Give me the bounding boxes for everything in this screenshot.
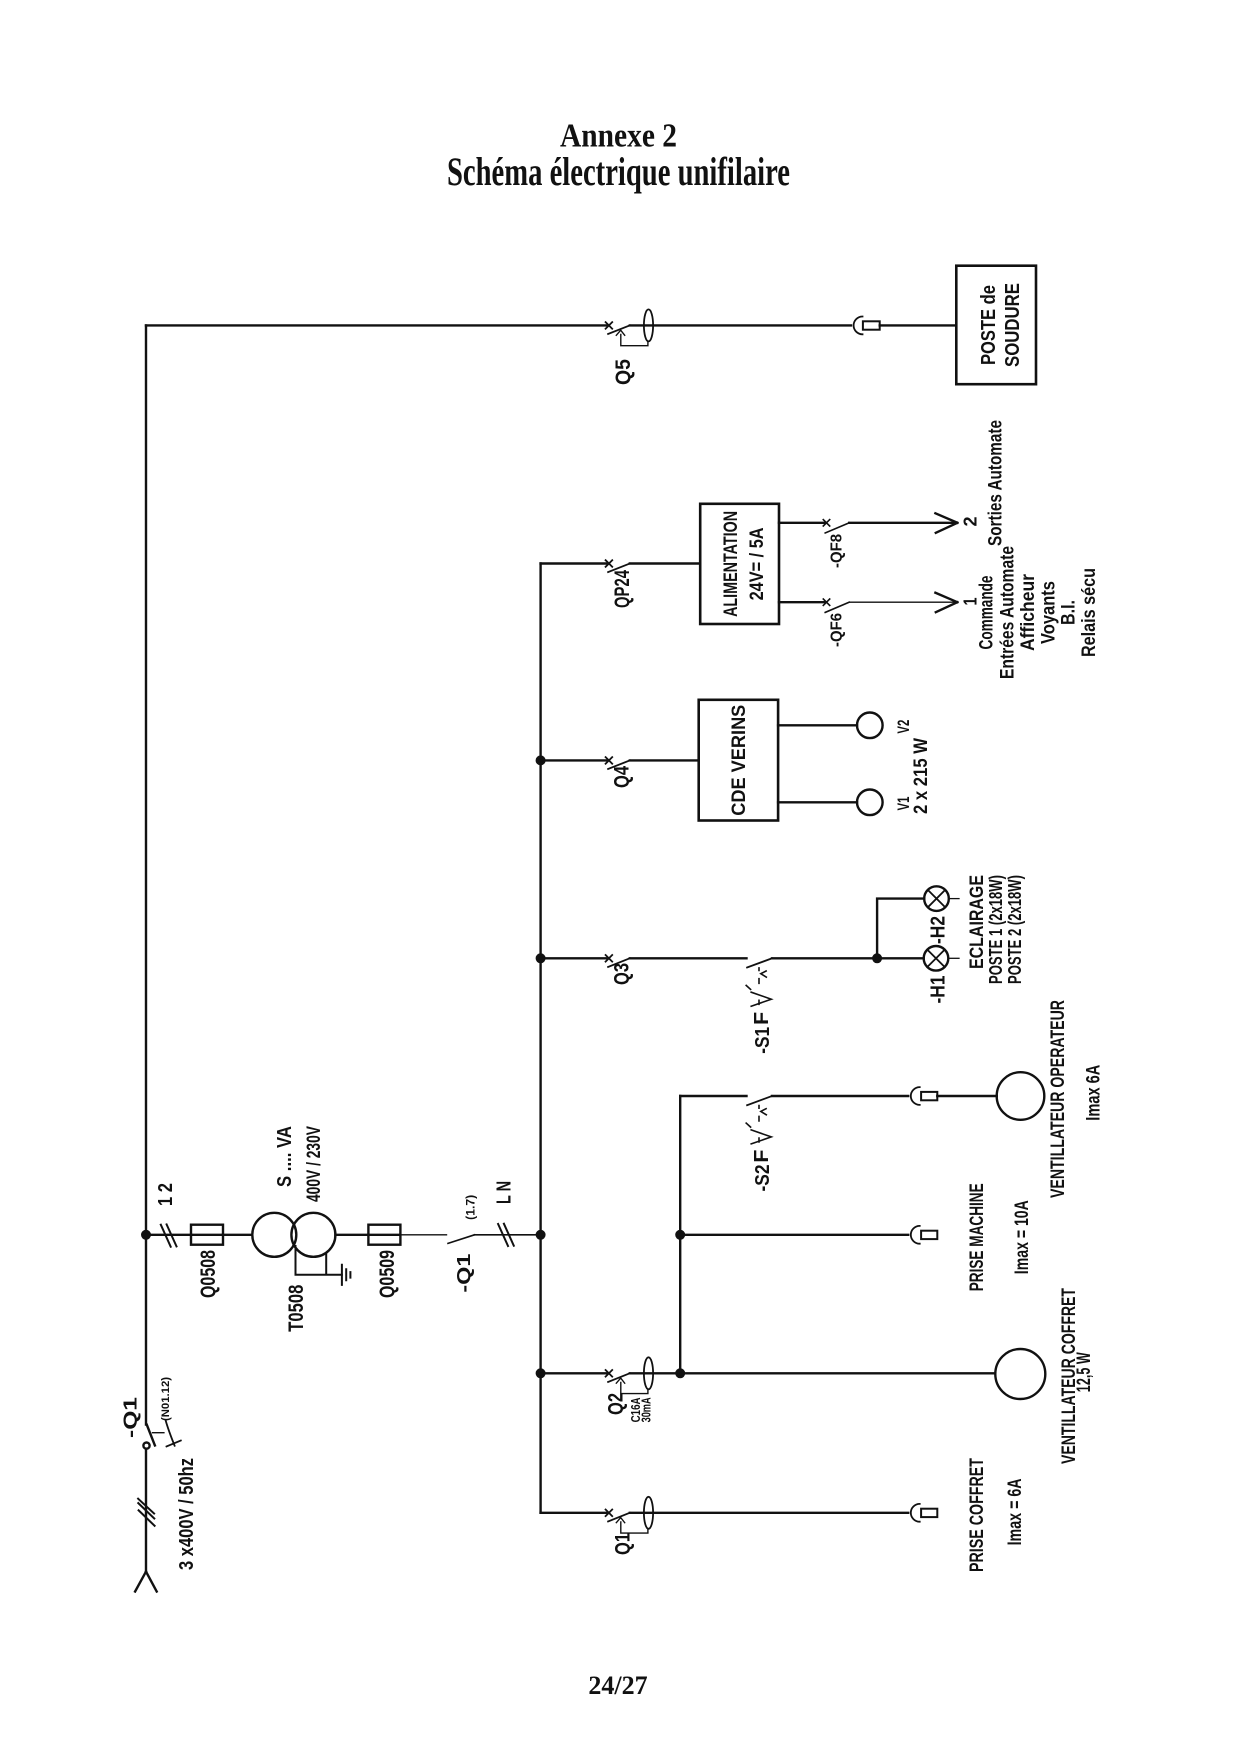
- breaker Q3 contact x: [606, 955, 613, 962]
- svg-text:-S1: -S1: [752, 1027, 774, 1054]
- switch -S1 actuator linkage: [746, 968, 771, 1006]
- label ALIMENTATION 24V= / 5A: [721, 511, 768, 617]
- svg-text:Schéma électrique unifilaire: Schéma électrique unifilaire: [447, 149, 790, 194]
- svg-text:Imax 6A: Imax 6A: [1084, 1064, 1105, 1120]
- svg-text:400V / 230V: 400V / 230V: [304, 1126, 325, 1202]
- svg-text:24/27: 24/27: [588, 1671, 647, 1700]
- svg-text:ECLAIRAGE: ECLAIRAGE: [967, 875, 988, 969]
- svg-text:Q1: Q1: [612, 1533, 635, 1555]
- wire QF8 to arrow: [849, 522, 955, 524]
- breaker Q5 ellipse: [644, 309, 653, 341]
- ground: [342, 1265, 351, 1285]
- svg-text:Imax = 10A: Imax = 10A: [1012, 1200, 1033, 1274]
- wire Q2 subfeed line: [679, 1096, 681, 1373]
- breaker Q2 contact x: [606, 1370, 613, 1377]
- wire V1 drop: [778, 801, 857, 803]
- svg-text:-Q1: -Q1: [454, 1254, 474, 1293]
- svg-text:Afficheur: Afficheur: [1018, 573, 1039, 651]
- breaker Q3 blade: [608, 958, 630, 967]
- breaker Q1 trip linkage: [616, 1518, 648, 1534]
- arrow output 1: [935, 593, 957, 613]
- svg-text:Q3: Q3: [611, 963, 634, 985]
- bus 230V: [539, 564, 541, 1513]
- breaker QP24 contact x: [606, 560, 613, 567]
- svg-text:T0508: T0508: [285, 1284, 308, 1331]
- box POSTE de SOUDURE: [956, 266, 1036, 385]
- motor fan operateur: [997, 1072, 1045, 1120]
- incoming supply arrow: [135, 1572, 157, 1592]
- svg-text:L N: L N: [494, 1181, 516, 1204]
- svg-text:PRISE MACHINE: PRISE MACHINE: [967, 1183, 988, 1291]
- svg-text:Sorties Automate: Sorties Automate: [986, 420, 1007, 546]
- svg-text:Commande: Commande: [977, 576, 998, 650]
- wire S2 to socket: [772, 1095, 908, 1097]
- breaker Q5 blade: [608, 325, 630, 334]
- wire socket to fan operateur: [937, 1095, 997, 1097]
- branch Q4 wire: [541, 759, 607, 761]
- wire H2 branch: [877, 899, 924, 959]
- svg-text:POSTE 2 (2x18W): POSTE 2 (2x18W): [1005, 875, 1025, 984]
- cylinder valve V1: [857, 790, 883, 816]
- wire fuse to switch: [400, 1234, 446, 1236]
- wire transformer drop: [146, 1234, 191, 1236]
- wire V2 drop: [778, 724, 857, 726]
- disconnect switch -Q1 main: [143, 1425, 164, 1449]
- breaker QP24 blade: [608, 564, 630, 573]
- breaker Q1 blade: [608, 1513, 630, 1522]
- svg-text:SOUDURE: SOUDURE: [1002, 283, 1024, 367]
- wire QF6 to arrow: [849, 601, 955, 603]
- svg-text:-S2: -S2: [752, 1165, 774, 1192]
- svg-text:V2: V2: [894, 720, 913, 734]
- junction dot machine tap: [676, 1231, 684, 1239]
- breaker Q4 blade: [608, 760, 630, 769]
- svg-text:-QF8: -QF8: [829, 534, 846, 568]
- wire feed main segment: [145, 325, 147, 1424]
- wire QF6 drop: [779, 601, 824, 603]
- wire S1 to junction: [772, 957, 877, 959]
- wire Q5 to socket: [630, 324, 851, 326]
- svg-text:Voyants: Voyants: [1039, 581, 1060, 644]
- svg-text:-Q1: -Q1: [121, 1397, 141, 1438]
- svg-text:-H2: -H2: [928, 916, 950, 944]
- svg-text:2 x 215 W: 2 x 215 W: [911, 738, 932, 814]
- wire to lamp H1: [877, 957, 924, 959]
- wire vent operateur drop: [680, 1095, 746, 1097]
- svg-text:1 2: 1 2: [155, 1183, 177, 1206]
- svg-text:Q5: Q5: [612, 359, 635, 385]
- svg-text:CDE VERINS: CDE VERINS: [729, 705, 750, 816]
- svg-text:Q4: Q4: [611, 766, 634, 788]
- svg-text:30mA: 30mA: [639, 1397, 654, 1422]
- lamp H2: [924, 886, 949, 911]
- wire feed left segment: [145, 1449, 147, 1572]
- wire switch to bus: [475, 1234, 541, 1236]
- fuse Q0509: [368, 1225, 400, 1245]
- branch Q3 wire: [541, 957, 607, 959]
- socket PRISE MACHINE: [911, 1226, 938, 1244]
- svg-text:Q0509: Q0509: [376, 1250, 399, 1298]
- label -S1 F: [751, 1012, 774, 1054]
- svg-text:24V= / 5A: 24V= / 5A: [747, 527, 768, 600]
- breaker -QF6 blade: [825, 602, 849, 612]
- svg-text:Imax = 6A: Imax = 6A: [1005, 1478, 1026, 1545]
- svg-text:F: F: [751, 1012, 773, 1025]
- breaker Q2 trip linkage: [616, 1378, 648, 1394]
- switch -S1 blade: [747, 958, 772, 967]
- svg-text:(1.7): (1.7): [464, 1195, 478, 1220]
- breaker -QF6 contact x: [823, 599, 829, 605]
- svg-text:S .... VA: S .... VA: [274, 1126, 296, 1187]
- socket welder: [854, 317, 880, 335]
- svg-text:VENTILLATEUR OPERATEUR: VENTILLATEUR OPERATEUR: [1048, 1000, 1069, 1198]
- breaker -QF8 blade: [825, 523, 849, 533]
- breaker Q1 contact x: [606, 1510, 613, 1517]
- svg-text:-QF6: -QF6: [829, 613, 846, 647]
- svg-text:-H1: -H1: [928, 976, 950, 1004]
- wire transformer to fuse Q0509: [335, 1234, 368, 1236]
- disconnect switch -Q1 secondary: [448, 1235, 475, 1244]
- wire stub H2: [949, 898, 959, 900]
- breaker Q2 blade: [608, 1373, 630, 1382]
- wire Q3 to S1: [630, 957, 747, 959]
- svg-text:Relais sécu: Relais sécu: [1079, 568, 1100, 657]
- L N slash marks: [498, 1224, 514, 1246]
- branch Q1 wire: [541, 1512, 607, 1514]
- junction dot Q2 subfeed: [676, 1370, 684, 1378]
- breaker Q5 trip linkage: [616, 330, 648, 346]
- svg-text:12,5 W: 12,5 W: [1074, 1352, 1095, 1392]
- branch QP24 wire: [541, 562, 607, 564]
- page title: [447, 118, 790, 195]
- switch -S2 actuator linkage: [746, 1106, 771, 1144]
- fuse Q0508: [191, 1225, 223, 1245]
- arrow output 2: [935, 513, 957, 533]
- transformer T0508: [252, 1213, 335, 1257]
- junction dot lamps: [873, 955, 881, 963]
- 2-conductor slash marks 1 2: [161, 1224, 177, 1246]
- wire socket to box: [880, 324, 957, 326]
- svg-text:POSTE de: POSTE de: [978, 285, 1000, 365]
- motor fan coffret: [995, 1349, 1045, 1399]
- junction dot feed/transformer: [142, 1231, 150, 1239]
- label POSTE de SOUDURE: [978, 283, 1024, 367]
- breaker Q4 contact x: [606, 757, 613, 764]
- box CDE VERINS: [699, 700, 778, 821]
- svg-text:3 x400V / 50hz: 3 x400V / 50hz: [176, 1458, 198, 1570]
- wire Q2 to junction: [630, 1372, 680, 1374]
- breaker Q5 contact x: [606, 322, 613, 329]
- svg-text:Entrées Automate: Entrées Automate: [998, 546, 1019, 679]
- svg-text:F: F: [751, 1150, 773, 1163]
- breaker Q2 ellipse: [644, 1357, 653, 1389]
- svg-text:QP24: QP24: [611, 570, 634, 608]
- junction dot bus Q2: [537, 1370, 545, 1378]
- wire stub H1: [948, 957, 959, 959]
- wire QP24 to box: [630, 562, 700, 564]
- wire Q4 to box: [630, 759, 699, 761]
- svg-text:PRISE COFFRET: PRISE COFFRET: [967, 1458, 988, 1572]
- 3-phase slash marks: [138, 1499, 155, 1526]
- box ALIMENTATION 24V: [700, 504, 779, 624]
- socket vent operateur: [911, 1087, 938, 1105]
- svg-text:ALIMENTATION: ALIMENTATION: [721, 511, 742, 617]
- branch Q5 wire: [146, 324, 606, 326]
- socket PRISE COFFRET: [911, 1504, 938, 1522]
- wire prise machine drop: [680, 1234, 908, 1236]
- svg-text:(N01.12): (N01.12): [160, 1377, 172, 1421]
- label Commande block: [977, 546, 1101, 679]
- svg-text:Q2: Q2: [605, 1393, 628, 1415]
- junction dot bus Q4: [537, 757, 545, 765]
- wire Q2 to fan: [680, 1372, 995, 1374]
- label -S2 F: [751, 1150, 774, 1192]
- svg-text:B.I.: B.I.: [1059, 600, 1080, 625]
- -Q1 interlock mark: [166, 1420, 181, 1446]
- svg-text:POSTE 1 (2x18W): POSTE 1 (2x18W): [986, 875, 1006, 984]
- svg-text:Q0508: Q0508: [197, 1250, 220, 1298]
- lamp H1: [924, 946, 949, 971]
- switch -S2 blade: [747, 1096, 772, 1105]
- junction dot bus/transformer: [537, 1231, 545, 1239]
- svg-text:2: 2: [961, 517, 981, 527]
- wire QF8 drop: [779, 522, 824, 524]
- branch Q2 wire: [541, 1372, 607, 1374]
- breaker Q1 ellipse: [644, 1497, 653, 1529]
- cylinder valve V2: [857, 713, 883, 739]
- breaker -QF8 contact x: [823, 520, 829, 526]
- wire fuse to transformer: [223, 1234, 252, 1236]
- junction dot bus Q3: [537, 955, 545, 963]
- transformer secondary tap wires: [296, 1246, 342, 1275]
- wire Q1 to socket: [630, 1512, 908, 1514]
